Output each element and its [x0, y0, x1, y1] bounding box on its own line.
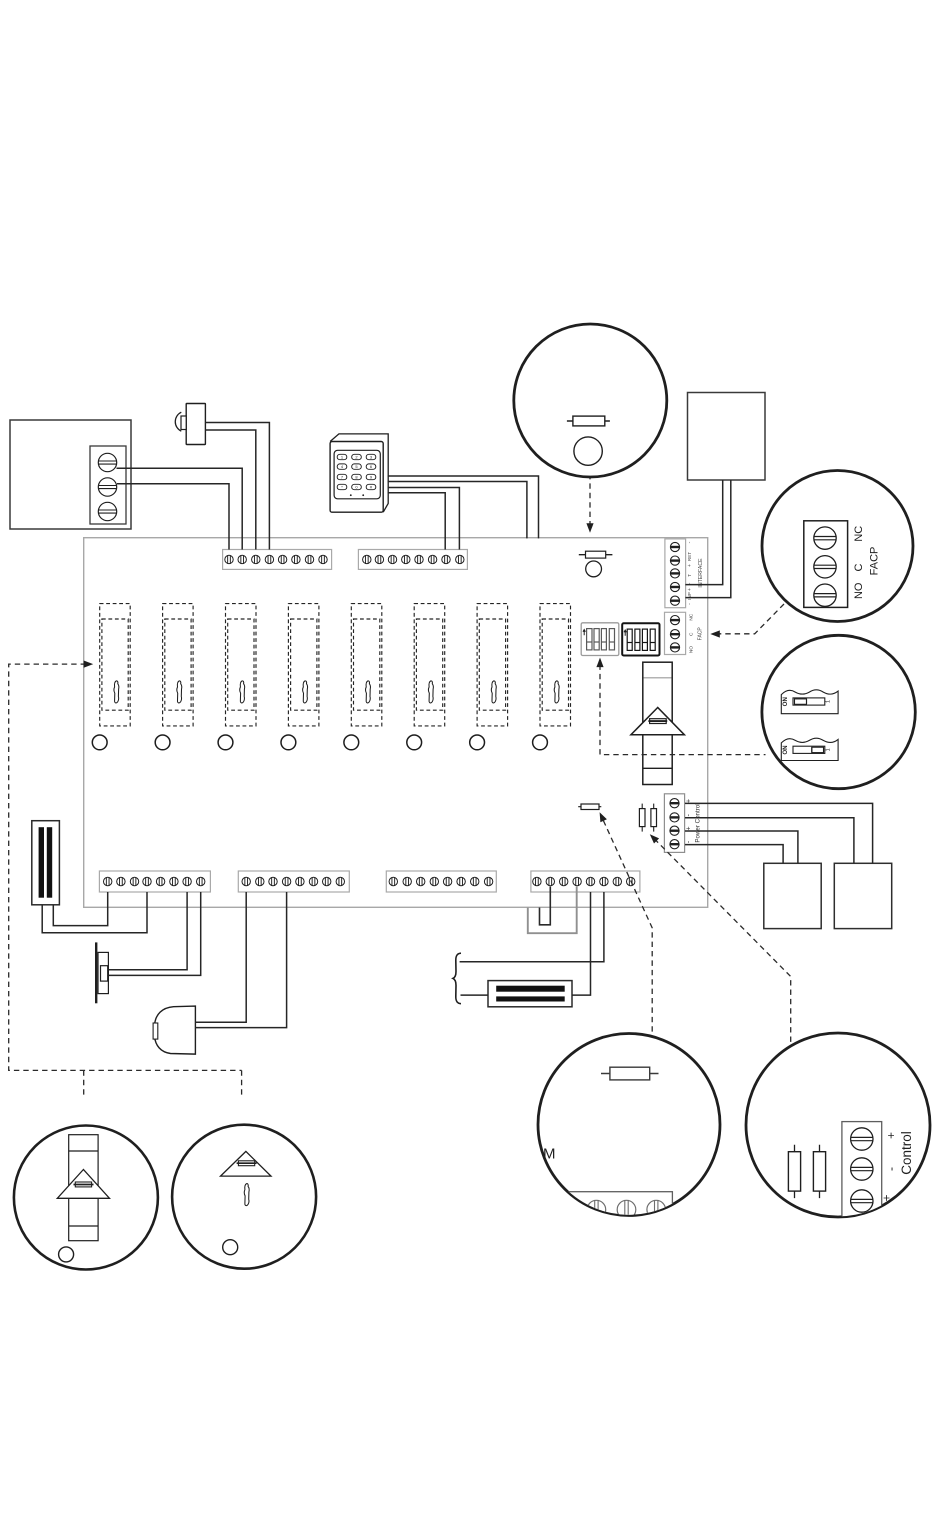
- lock power box 2: [834, 863, 891, 928]
- wire exit button to TB3 pin7: [108, 892, 187, 970]
- wire REX sensor to TB4 pin1: [195, 892, 246, 1022]
- wire TB6 pin5 to maglock: [572, 892, 591, 995]
- svg-text:+: +: [686, 799, 693, 803]
- svg-text:C: C: [689, 632, 695, 636]
- terminal strip TB3 (reader/button, bottom left): [99, 871, 210, 892]
- wire keypad to board edge B: [388, 482, 527, 539]
- DIP detail 1 (switch ON position): [781, 690, 838, 714]
- FACP relay terminal block on board: [665, 612, 686, 654]
- terminal strip TB5 (bottom middle): [386, 871, 496, 892]
- Power Control terminal block: [664, 794, 684, 853]
- wire exit button to TB3 pin8: [108, 892, 200, 975]
- power supply box: [10, 420, 131, 529]
- svg-text:Control: Control: [899, 1131, 914, 1175]
- REX motion sensor: [153, 1006, 195, 1054]
- wire aux box to INTERFACE pin5: [685, 480, 730, 598]
- wire Power Control + to box2: [685, 803, 873, 863]
- dashed callout: DIP detail circle to S1: [600, 665, 766, 755]
- terminal strip TB6 (lock outputs, bottom right): [531, 871, 640, 892]
- svg-text:INTERFACE: INTERFACE: [698, 558, 704, 588]
- card reader: [32, 821, 60, 905]
- detail circle: DIP switches magnified: [762, 635, 915, 788]
- wire loop TB6 pin2: [540, 887, 551, 925]
- svg-text:ON: ON: [782, 745, 789, 755]
- terminal strip TB2 (keypad inputs, top right): [358, 550, 467, 570]
- dashed stub to detail circle B: [241, 1070, 243, 1098]
- wire Power Control + to box1: [685, 831, 798, 863]
- detail circle B: warning triangle and jumper magnified: [172, 1125, 316, 1269]
- main controller board outline: [84, 538, 708, 908]
- door contact sensor: [175, 404, 205, 445]
- lock power box 1: [764, 863, 821, 928]
- detail circle: FACP terminal magnified: [762, 471, 913, 622]
- relay LED indicators: [92, 735, 547, 750]
- arrowhead to fuse F1: [586, 523, 593, 533]
- keypad: [330, 434, 388, 512]
- svg-text:-: -: [884, 1167, 898, 1171]
- svg-text:+: +: [686, 826, 693, 830]
- INTERFACE pin labels: [687, 541, 704, 605]
- wire door contact to TB1 pin4: [205, 423, 269, 550]
- svg-text:+: +: [687, 588, 693, 591]
- fuse F1 on board with LED: [579, 551, 613, 577]
- DIP detail 2 (switch 1 position): [781, 738, 838, 760]
- DIP switch S1 (gray): [581, 623, 619, 656]
- request-to-exit push button: [96, 942, 108, 1003]
- wire card reader to TB3 pin4: [42, 892, 147, 933]
- dashed callout: fuses F5/F6 to detail circle D: [654, 839, 790, 1045]
- wire loop TB6 pin4: [528, 887, 577, 934]
- wire keypad to TB2 pin8: [388, 488, 460, 550]
- detail circle D: power control fuses magnified: [746, 1033, 930, 1218]
- detail circle: fuse F1 magnified: [514, 324, 667, 477]
- wire PSU terminal1 to TB1 pin2: [117, 468, 243, 549]
- wire PSU terminal2 to TB1 pin1: [117, 484, 229, 550]
- wire aux box to INTERFACE pin4: [685, 480, 722, 585]
- svg-text:1: 1: [825, 700, 831, 703]
- maglock: [488, 981, 572, 1007]
- dashed callout: fuse detail circle to F1: [589, 474, 591, 527]
- arrowhead to fuses F5 F6: [650, 834, 659, 843]
- armature bracket (door frame): [453, 953, 461, 1004]
- wire TB6 pin6 to armature: [460, 892, 604, 962]
- detail circle A: lock fuse holder magnified: [14, 1126, 158, 1270]
- fuse F4 (horizontal, near power control): [578, 804, 601, 810]
- relay channels K1-K8 (dashed sockets with jumpers): [100, 604, 571, 726]
- wire card reader to TB3 pin1: [53, 892, 107, 926]
- DIP switch S2 (black): [622, 623, 659, 655]
- main fuse holder F3 with warning triangle: [631, 662, 685, 784]
- svg-text:1: 1: [825, 748, 831, 751]
- svg-text:C: C: [853, 563, 865, 571]
- arrowhead to fuse F4: [600, 812, 607, 822]
- dashed callout: FACP detail circle to FACP block: [717, 604, 785, 634]
- FACP pin labels NO C NC: [689, 613, 704, 653]
- wire door contact to TB1 pin3: [205, 430, 255, 550]
- terminal strip TB4 (REX sensor, bottom): [238, 871, 349, 892]
- dashed callout: left loop to relay channel: [9, 664, 242, 1070]
- INTERFACE terminal block J1: [665, 539, 686, 608]
- svg-text:Power Control: Power Control: [695, 803, 702, 842]
- fuses F5 F6 (vertical pair): [639, 804, 656, 832]
- auxiliary box (top right): [688, 393, 766, 481]
- svg-text:+: +: [687, 564, 693, 567]
- wire Power Control - to box1: [685, 845, 783, 864]
- wire keypad to TB2 pin7: [388, 493, 445, 550]
- arrowhead to FACP block: [710, 630, 720, 637]
- svg-text:FACP: FACP: [869, 547, 881, 576]
- svg-text:NC: NC: [853, 526, 865, 542]
- svg-text:+: +: [884, 1132, 898, 1139]
- wire Power Control - to box2: [685, 818, 854, 864]
- dashed callout: fuse F4 to detail circle C: [603, 821, 652, 1035]
- Power Control labels + - + -: [686, 799, 702, 843]
- svg-text:T: T: [687, 574, 692, 577]
- svg-text:INP: INP: [687, 592, 692, 600]
- detail circle C: maglock fuse magnified: [538, 1034, 720, 1237]
- wire REX sensor to TB4 pin4: [195, 892, 286, 1028]
- svg-text:ON: ON: [782, 697, 789, 707]
- svg-text:NC: NC: [689, 613, 695, 620]
- dashed stub to detail circle A: [83, 1070, 85, 1098]
- terminal strip TB1 (reader/door inputs, top left): [223, 550, 332, 570]
- svg-text:NO: NO: [853, 582, 865, 599]
- svg-text:FACP: FACP: [698, 627, 704, 641]
- wire armature to maglock: [461, 994, 489, 996]
- wire keypad to board edge A: [388, 476, 539, 538]
- svg-text:NO: NO: [689, 646, 695, 653]
- arrowhead to DIP switch S1: [596, 658, 603, 668]
- svg-text:RET: RET: [687, 552, 692, 561]
- arrowhead into relay channel K1: [84, 661, 94, 668]
